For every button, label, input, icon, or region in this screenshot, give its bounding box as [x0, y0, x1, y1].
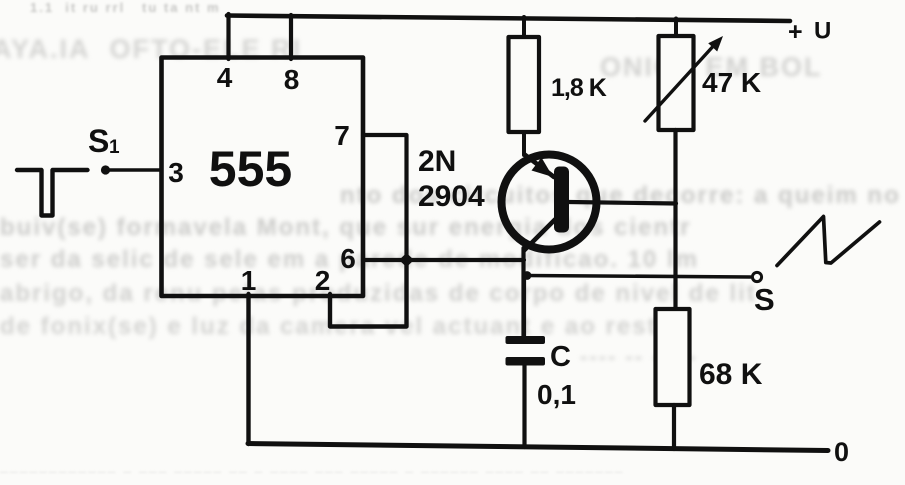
svg-text:1,8 K: 1,8 K: [551, 74, 607, 102]
potentiometer R2 arrow: [645, 42, 717, 121]
svg-text:0: 0: [834, 437, 849, 467]
svg-text:4: 4: [217, 62, 233, 93]
wire rail to potentiometer R2: [674, 19, 678, 38]
node S output open terminal: [752, 272, 761, 281]
wire rail to resistor R1: [522, 17, 526, 38]
node S1 input terminal dot: [101, 165, 110, 174]
svg-text:0,1: 0,1: [537, 379, 576, 410]
svg-text:U: U: [814, 18, 831, 45]
svg-text:2904: 2904: [418, 180, 485, 213]
node output junction dot: [523, 271, 532, 280]
wire output node down to capacitor C1: [522, 277, 526, 336]
transistor Q1 emitter lead: [525, 155, 555, 178]
wire pin 2 to node A: [330, 262, 407, 327]
wire pin 8 to rail: [289, 15, 293, 59]
IC U1 555 timer body: [162, 58, 364, 297]
svg-text:S: S: [88, 123, 109, 159]
svg-text:2N: 2N: [418, 145, 456, 178]
wire S1 to pin 3: [106, 168, 162, 172]
svg-text:C: C: [550, 341, 571, 373]
pulse input waveform symbol: [17, 170, 88, 216]
wire R2 down through S line to R3: [673, 130, 677, 310]
potentiometer R2 arrowhead: [708, 36, 723, 52]
wire pin 4 to rail: [226, 14, 230, 59]
potentiometer R2 47K body: [659, 36, 694, 130]
sawtooth output waveform symbol: [777, 217, 880, 266]
svg-text:1: 1: [241, 265, 257, 296]
wire Q1 base to R2: [569, 202, 676, 204]
svg-text:47 K: 47 K: [702, 67, 761, 98]
wire R1 to Q1 emitter: [522, 132, 526, 155]
svg-text:68 K: 68 K: [699, 358, 763, 391]
svg-text:3: 3: [168, 157, 184, 188]
wire pin 6 to collector line: [363, 258, 524, 262]
wire R3 to ground rail: [672, 405, 676, 449]
capacitor C1 top plate: [506, 336, 546, 344]
svg-text:6: 6: [340, 243, 356, 274]
svg-text:555: 555: [209, 141, 292, 197]
resistor R3 68K body: [656, 309, 690, 405]
resistor R1 1.8K body: [509, 37, 540, 132]
wire bottom 0V rail: [248, 444, 828, 451]
svg-text:+: +: [788, 18, 803, 46]
svg-text:S: S: [754, 282, 775, 317]
svg-text:1: 1: [109, 137, 120, 158]
wire pin 1 to ground rail: [246, 294, 250, 444]
node A junction dot: [399, 253, 414, 267]
wire pin 7 to node A: [363, 135, 407, 258]
transistor Q1 base bar: [554, 167, 569, 233]
wire collector to output S: [524, 276, 751, 278]
wire C1 to ground rail: [522, 365, 526, 447]
faint page bleed-through background text (decorative): [30, 0, 221, 15]
transistor Q1 emitter arrow (PNP): [532, 158, 554, 178]
wire top supply rail: [227, 16, 790, 22]
capacitor C1 bottom plate: [506, 357, 546, 366]
svg-text:2: 2: [315, 265, 331, 296]
transistor Q1 2N2904 circle: [502, 155, 597, 250]
svg-text:8: 8: [284, 64, 300, 95]
transistor Q1 collector lead: [524, 220, 555, 251]
svg-text:7: 7: [334, 120, 350, 151]
wire collector down to capacitor: [521, 248, 525, 338]
